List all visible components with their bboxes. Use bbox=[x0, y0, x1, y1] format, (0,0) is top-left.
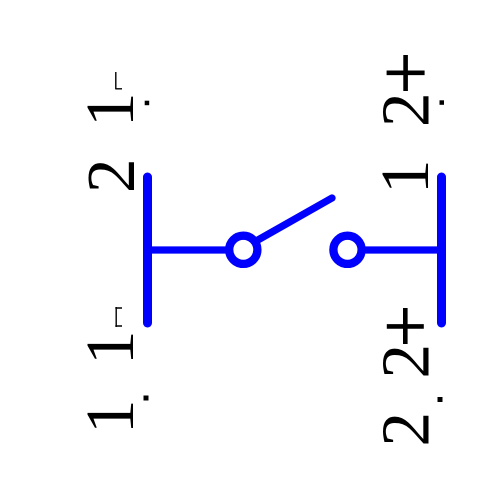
label top-right plus mark bbox=[387, 55, 425, 91]
label bottom-right plus mark bbox=[387, 308, 424, 344]
label top-left hyphen mark bbox=[115, 72, 122, 89]
wire from contact B to right bar bbox=[366, 246, 442, 253]
label bottom-right tiny dot bbox=[438, 397, 443, 402]
contact circle B bbox=[333, 236, 361, 264]
label top-right tiny dot bbox=[440, 100, 445, 105]
svg-text:1: 1 bbox=[72, 331, 148, 366]
svg-text:1: 1 bbox=[72, 93, 148, 128]
svg-text:1: 1 bbox=[72, 400, 148, 435]
svg-text:2: 2 bbox=[367, 93, 443, 128]
wire from left bar to contact A bbox=[148, 246, 227, 253]
svg-text:2: 2 bbox=[367, 412, 443, 447]
pin 1.2 (right bar terminal) bbox=[437, 177, 446, 323]
contact circle A bbox=[229, 236, 257, 264]
pin 1.1 (left bar terminal) bbox=[143, 177, 152, 323]
svg-text:2: 2 bbox=[367, 344, 443, 379]
label bottom-left tiny dot bbox=[144, 396, 149, 401]
svg-text:2: 2 bbox=[73, 159, 149, 194]
label bottom-left bracket mark bbox=[115, 307, 122, 327]
switch actuator lever bbox=[255, 198, 332, 242]
svg-text:1: 1 bbox=[367, 160, 443, 195]
label top-left tiny dot bbox=[145, 101, 150, 106]
